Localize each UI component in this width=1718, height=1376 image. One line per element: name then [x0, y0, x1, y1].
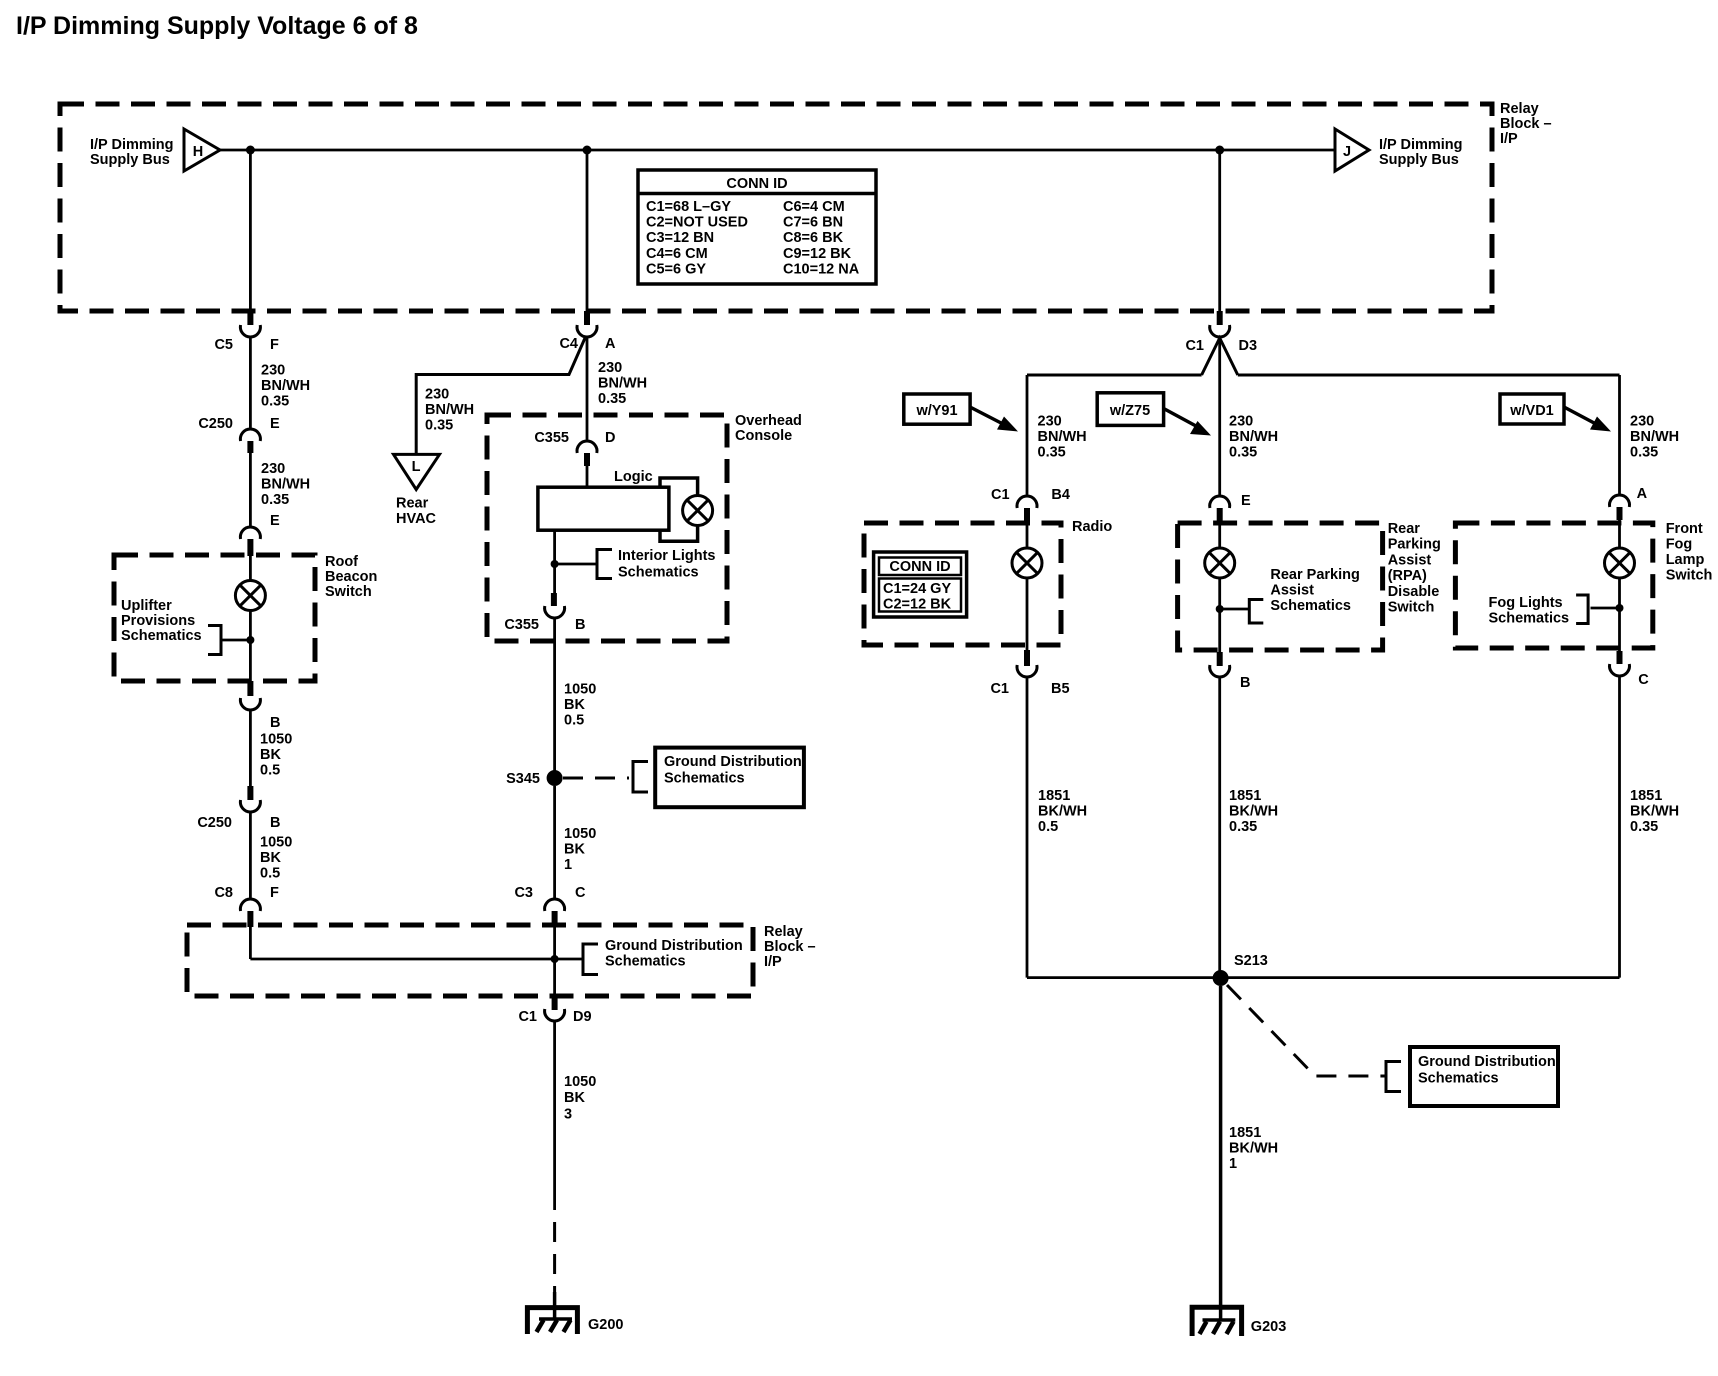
svg-text:I/P: I/P [1500, 131, 1518, 147]
svg-text:C5=6 GY: C5=6 GY [646, 261, 706, 277]
wire B to C250 B [249, 710, 252, 786]
svg-text:B: B [575, 617, 585, 633]
svg-text:1851: 1851 [1229, 1125, 1261, 1141]
svg-text:Uplifter: Uplifter [121, 598, 172, 614]
svg-text:C3=12 BN: C3=12 BN [646, 230, 714, 246]
CONN ID table (radio) [874, 552, 967, 617]
ground distribution schematics box (S213) [1410, 1047, 1558, 1106]
svg-text:J: J [1343, 144, 1351, 160]
svg-text:Rear Parking: Rear Parking [1270, 567, 1359, 583]
ground G200 [527, 1308, 623, 1334]
bracket rear parking assist [1220, 600, 1264, 624]
svg-text:Front: Front [1666, 521, 1703, 537]
svg-text:BK: BK [564, 842, 585, 858]
connector C1 D3 [1185, 311, 1257, 354]
svg-text:C2=12 BK: C2=12 BK [883, 597, 952, 613]
wire label 1050 BK 0.5 (below roof beacon) [260, 732, 292, 779]
svg-text:Schematics: Schematics [618, 565, 699, 581]
label I/P Dimming Supply Bus (left) [90, 137, 174, 168]
svg-text:w/Z75: w/Z75 [1109, 403, 1150, 419]
svg-text:E: E [270, 513, 280, 529]
label Interior Lights Schematics [618, 548, 715, 581]
junction on bus at C5 drop [246, 146, 255, 155]
svg-text:CONN ID: CONN ID [726, 176, 787, 192]
wire down radio branch [1026, 375, 1029, 496]
svg-text:Assist: Assist [1270, 583, 1314, 599]
svg-text:BK/WH: BK/WH [1229, 804, 1278, 820]
wire label 1050 BK 0.5 (to C8) [260, 835, 292, 882]
connector C (fog) [1610, 651, 1650, 688]
svg-text:I/P Dimming: I/P Dimming [90, 137, 174, 153]
junction dot (roof beacon tap) [246, 636, 254, 644]
svg-text:A: A [1637, 486, 1648, 502]
wire C355 B down to S345 [553, 618, 556, 778]
svg-text:C355: C355 [534, 430, 569, 446]
svg-text:0.35: 0.35 [598, 391, 626, 407]
svg-text:S213: S213 [1234, 953, 1268, 969]
svg-text:Fog Lights: Fog Lights [1489, 595, 1563, 611]
wire into lamp (radio) [1026, 524, 1029, 548]
bus arrow H (I/P Dimming Supply Bus, left) [184, 129, 220, 171]
label Rear Parking Assist Schematics [1270, 567, 1359, 614]
svg-text:C1: C1 [991, 487, 1010, 503]
svg-text:Disable: Disable [1388, 584, 1440, 600]
svg-text:0.35: 0.35 [1630, 819, 1658, 835]
svg-text:BN/WH: BN/WH [1038, 429, 1087, 445]
wire C down to S213 rail [1618, 676, 1621, 978]
label Uplifter Provisions Schematics [121, 598, 202, 644]
svg-text:C4: C4 [559, 336, 578, 352]
svg-text:0.35: 0.35 [261, 394, 289, 410]
svg-text:1050: 1050 [564, 826, 596, 842]
bracket ground distribution (S213) [1386, 1062, 1401, 1092]
roof beacon switch dashed box [114, 555, 315, 681]
wire horizontal to radio branch [1027, 374, 1202, 377]
fog dashed box [1455, 523, 1652, 648]
connector C355 D [534, 430, 615, 466]
connector C8 F [214, 885, 279, 927]
label Fog Lights Schematics [1489, 595, 1570, 627]
wire label 1851 BK/WH 1 [1229, 1125, 1278, 1172]
svg-text:C8: C8 [214, 885, 233, 901]
wire S213 rail [1027, 976, 1620, 979]
svg-text:Supply Bus: Supply Bus [1379, 152, 1459, 168]
lamp (fog) [1605, 548, 1635, 578]
wire horizontal to fog branch [1238, 374, 1620, 377]
node S213 [1213, 953, 1268, 986]
svg-text:B: B [270, 815, 280, 831]
svg-text:1050: 1050 [564, 1074, 596, 1090]
svg-text:F: F [270, 885, 279, 901]
svg-text:C: C [575, 885, 586, 901]
wire C8 F into relay block down [249, 927, 252, 959]
svg-text:0.5: 0.5 [260, 763, 280, 779]
svg-text:Interior Lights: Interior Lights [618, 548, 715, 564]
svg-text:Console: Console [735, 428, 792, 444]
bracket ground distribution (S345) [633, 762, 648, 793]
wire C355 D to logic box [586, 466, 589, 488]
svg-text:B5: B5 [1051, 681, 1070, 697]
connector A (fog) [1610, 486, 1648, 520]
svg-text:230: 230 [1630, 414, 1654, 430]
svg-text:Parking: Parking [1388, 537, 1441, 553]
svg-text:Schematics: Schematics [1270, 598, 1351, 614]
label Relay Block - I/P (top right) [1500, 101, 1552, 147]
svg-text:Beacon: Beacon [325, 569, 377, 585]
svg-text:S345: S345 [506, 771, 540, 787]
svg-text:230: 230 [261, 363, 285, 379]
svg-text:BK/WH: BK/WH [1038, 804, 1087, 820]
svg-text:230: 230 [1038, 414, 1062, 430]
wire label 230 BN/WH 0.35 (fog branch) [1630, 414, 1679, 461]
label Ground Distribution Schematics (relay block) [605, 938, 743, 970]
overhead console dashed box [487, 415, 727, 641]
svg-text:C1=24 GY: C1=24 GY [883, 581, 951, 597]
svg-text:L: L [412, 459, 421, 475]
svg-text:Ground Distribution: Ground Distribution [664, 754, 802, 770]
wire C4 diagonal to rear HVAC branch [416, 338, 585, 454]
wire lamp to box bottom (roof beacon) [249, 611, 252, 682]
svg-text:Block –: Block – [1500, 116, 1552, 132]
svg-text:Rear: Rear [1388, 521, 1421, 537]
svg-text:BK: BK [564, 1090, 585, 1106]
svg-text:C8=6 BK: C8=6 BK [783, 230, 844, 246]
svg-text:D: D [605, 430, 615, 446]
svg-text:BK/WH: BK/WH [1229, 1141, 1278, 1157]
wire C250 B to C8 F [249, 812, 252, 899]
svg-text:1: 1 [564, 857, 572, 873]
svg-text:C1: C1 [990, 681, 1009, 697]
connector C355 B [504, 593, 585, 633]
wire label 230 BN/WH 0.35 (to roof beacon) [261, 461, 310, 508]
svg-text:Overhead: Overhead [735, 413, 802, 429]
label Overhead Console [735, 413, 802, 444]
svg-text:Switch: Switch [1666, 568, 1713, 584]
svg-text:Relay: Relay [764, 924, 803, 940]
svg-text:1851: 1851 [1229, 788, 1261, 804]
wire label 1050 BK 0.5 (below overhead console) [564, 682, 596, 729]
connector C5 F [214, 311, 279, 353]
svg-text:C9=12 BK: C9=12 BK [783, 246, 852, 262]
svg-text:C3: C3 [514, 885, 533, 901]
svg-text:E: E [1241, 493, 1251, 509]
svg-text:230: 230 [598, 360, 622, 376]
wire C4 down to C355 D [586, 337, 589, 441]
lamp (rpa) [1205, 548, 1235, 578]
label I/P Dimming Supply Bus (right) [1379, 137, 1463, 168]
svg-text:BK: BK [260, 850, 281, 866]
svg-text:0.35: 0.35 [425, 418, 453, 434]
flag box w/Y91 [904, 394, 970, 424]
wire B5 down to S213 rail [1026, 677, 1029, 978]
wire logic box down [553, 530, 556, 593]
svg-text:Schematics: Schematics [664, 771, 745, 787]
bracket ground distribution (relay block) [555, 944, 598, 975]
ground distribution schematics box (S345) [655, 748, 804, 808]
wire relay block horizontal [250, 958, 554, 961]
svg-text:B: B [1240, 675, 1250, 691]
svg-text:BK/WH: BK/WH [1630, 804, 1679, 820]
lamp (radio) [1012, 548, 1042, 578]
wire bus down to C5 [249, 150, 252, 311]
svg-text:1050: 1050 [564, 682, 596, 698]
svg-text:C5: C5 [214, 337, 233, 353]
svg-text:C1=68 L–GY: C1=68 L–GY [646, 199, 731, 215]
logic box (overhead console) [538, 487, 669, 530]
svg-text:F: F [270, 337, 279, 353]
label Rear Parking Assist RPA Disable Switch [1388, 521, 1441, 616]
flag box w/Z75 [1097, 393, 1163, 426]
wire logic box loop to lamp [660, 478, 698, 541]
svg-text:BN/WH: BN/WH [261, 477, 310, 493]
svg-text:Switch: Switch [325, 584, 372, 600]
svg-text:1851: 1851 [1630, 788, 1662, 804]
title text [16, 12, 418, 40]
label Roof Beacon Switch [325, 554, 377, 600]
bracket to uplifter provisions [208, 626, 250, 655]
ground G203 [1192, 1307, 1286, 1336]
wire into lamp (roof beacon) [249, 556, 252, 581]
svg-text:C6=4 CM: C6=4 CM [783, 199, 845, 215]
wire split diagonals below C1 D3 [1202, 338, 1238, 375]
wire down fog branch [1618, 375, 1621, 495]
svg-text:C2=NOT USED: C2=NOT USED [646, 215, 748, 231]
svg-text:Assist: Assist [1388, 552, 1432, 568]
svg-text:BN/WH: BN/WH [1630, 429, 1679, 445]
svg-text:3: 3 [564, 1106, 572, 1122]
relay block I/P dashed box (bottom) [187, 925, 753, 996]
wire bus H to J [220, 149, 1335, 152]
svg-text:Relay: Relay [1500, 101, 1539, 117]
svg-text:Roof: Roof [325, 554, 358, 570]
connector E (roof beacon switch) [240, 513, 280, 556]
radio dashed box [864, 523, 1061, 645]
svg-text:Supply Bus: Supply Bus [90, 152, 170, 168]
svg-text:0.35: 0.35 [1229, 819, 1257, 835]
svg-text:0.35: 0.35 [1229, 445, 1257, 461]
wire label 230 BN/WH 0.35 (rear HVAC) [425, 387, 474, 434]
svg-text:I/P Dimming Supply Voltage 6 o: I/P Dimming Supply Voltage 6 of 8 [16, 12, 418, 40]
junction dot (relay block) [551, 955, 559, 963]
wire label 1050 BK 3 [564, 1074, 596, 1122]
label Relay Block - I/P (bottom) [764, 924, 816, 970]
junction dot (fog tap) [1616, 604, 1624, 612]
wire S345 to C3 [553, 786, 556, 899]
flag box w/VD1 [1500, 394, 1564, 424]
wire into lamp (fog) [1618, 520, 1621, 548]
svg-text:C7=6 BN: C7=6 BN [783, 215, 843, 231]
wire label 230 BN/WH 0.35 (rpa branch) [1229, 414, 1278, 461]
svg-text:230: 230 [1229, 414, 1253, 430]
connector C1 B4 [991, 487, 1070, 524]
label Radio [1072, 519, 1112, 535]
svg-text:C250: C250 [197, 815, 232, 831]
wire C5 to C250 [249, 337, 252, 429]
bracket fog lights [1576, 595, 1619, 624]
svg-text:0.5: 0.5 [260, 866, 280, 882]
svg-text:w/Y91: w/Y91 [915, 403, 957, 419]
svg-text:D9: D9 [573, 1009, 592, 1025]
wire C250 E down to roof beacon switch [249, 453, 252, 527]
svg-text:CONN ID: CONN ID [889, 559, 950, 575]
wire lamp to B5 (radio) [1026, 578, 1029, 650]
wire label 230 BN/WH 0.35 (left drop) [261, 363, 310, 410]
svg-text:1050: 1050 [260, 835, 292, 851]
arrow w/Z75 to wire [1164, 409, 1211, 436]
svg-text:I/P: I/P [764, 954, 782, 970]
junction on bus at C4 drop [583, 146, 592, 155]
svg-text:BN/WH: BN/WH [598, 376, 647, 392]
svg-text:C1: C1 [518, 1009, 537, 1025]
svg-text:I/P Dimming: I/P Dimming [1379, 137, 1463, 153]
svg-text:C355: C355 [504, 617, 539, 633]
junction dot (interior lights tap) [551, 560, 559, 568]
svg-text:0.5: 0.5 [1038, 819, 1058, 835]
svg-text:Logic: Logic [614, 469, 653, 485]
svg-text:H: H [193, 144, 203, 160]
svg-text:Provisions: Provisions [121, 613, 195, 629]
node S345 [506, 770, 562, 787]
lamp (overhead console logic) [683, 496, 713, 526]
connector E (rpa) [1210, 493, 1251, 523]
svg-text:C4=6 CM: C4=6 CM [646, 246, 708, 262]
svg-text:BN/WH: BN/WH [261, 378, 310, 394]
svg-text:Lamp: Lamp [1666, 552, 1705, 568]
svg-text:A: A [605, 336, 616, 352]
connector B (rpa) [1210, 652, 1251, 691]
junction on bus at C1 drop [1215, 146, 1224, 155]
arrow w/VD1 to wire [1564, 407, 1611, 432]
svg-text:Block –: Block – [764, 939, 816, 955]
connector B (roof beacon bottom) [240, 681, 280, 731]
svg-text:Schematics: Schematics [1418, 1071, 1499, 1087]
svg-text:C1: C1 [1185, 338, 1204, 354]
svg-text:Schematics: Schematics [121, 628, 202, 644]
svg-text:230: 230 [261, 461, 285, 477]
connector C1 B5 [990, 650, 1069, 697]
svg-text:1851: 1851 [1038, 788, 1070, 804]
wire down rpa branch [1218, 338, 1221, 496]
wire S213 to G203 [1219, 986, 1223, 1320]
wire label 1851 BK/WH 0.5 [1038, 788, 1087, 835]
svg-text:0.5: 0.5 [564, 713, 584, 729]
connector C1 D9 [518, 996, 591, 1025]
svg-text:C250: C250 [198, 416, 233, 432]
svg-text:0.35: 0.35 [261, 492, 289, 508]
wire bus down to C1 D3 [1218, 150, 1221, 311]
svg-text:0.35: 0.35 [1038, 445, 1066, 461]
svg-text:Fog: Fog [1666, 537, 1693, 553]
connector C4 A [559, 311, 616, 352]
svg-text:C: C [1638, 672, 1649, 688]
rpa dashed box [1178, 523, 1383, 650]
svg-text:1: 1 [1229, 1156, 1237, 1172]
arrow L to Rear HVAC [394, 454, 440, 489]
svg-text:(RPA): (RPA) [1388, 568, 1427, 584]
wire bus down to C4 [586, 150, 589, 311]
wire lamp down (fog) [1618, 578, 1621, 651]
svg-text:BK: BK [260, 747, 281, 763]
svg-text:1050: 1050 [260, 732, 292, 748]
bracket interior lights [555, 550, 612, 579]
svg-text:Ground Distribution: Ground Distribution [605, 938, 743, 954]
svg-text:Schematics: Schematics [1489, 611, 1570, 627]
wire label 230 BN/WH 0.35 (radio branch) [1038, 414, 1087, 461]
label Front Fog Lamp Switch [1666, 521, 1713, 584]
label Logic [614, 469, 653, 485]
svg-text:E: E [270, 416, 280, 432]
svg-text:Rear: Rear [396, 496, 429, 512]
arrow w/Y91 to wire [970, 407, 1018, 432]
relay block I/P dashed box (top) [60, 104, 1492, 311]
svg-text:G203: G203 [1251, 1319, 1286, 1335]
wire lamp down (rpa) [1218, 578, 1221, 652]
wire label 1851 BK/WH 0.35 (fog) [1630, 788, 1679, 835]
svg-text:B: B [270, 715, 280, 731]
wire B down to S213 [1218, 677, 1221, 978]
svg-text:230: 230 [425, 387, 449, 403]
svg-text:BN/WH: BN/WH [425, 402, 474, 418]
svg-text:Switch: Switch [1388, 600, 1435, 616]
CONN ID table (relay block) [638, 170, 876, 284]
svg-text:Schematics: Schematics [605, 954, 686, 970]
svg-text:0.35: 0.35 [1630, 445, 1658, 461]
dashed link S345 to ground distribution [563, 777, 629, 780]
dashed wire to G200 [553, 1222, 556, 1319]
wire label 230 BN/WH 0.35 (C4 A) [598, 360, 647, 407]
svg-text:C10=12 NA: C10=12 NA [783, 261, 860, 277]
svg-text:Ground Distribution: Ground Distribution [1418, 1054, 1556, 1070]
label Rear HVAC [396, 496, 437, 528]
svg-text:Radio: Radio [1072, 519, 1112, 535]
svg-text:BN/WH: BN/WH [1229, 429, 1278, 445]
junction dot (rpa tap) [1216, 605, 1224, 613]
svg-text:w/VD1: w/VD1 [1509, 403, 1554, 419]
wire C1 D9 down [553, 1021, 556, 1210]
connector C250 B [197, 786, 280, 831]
svg-text:HVAC: HVAC [396, 511, 437, 527]
connector C250 E [198, 416, 280, 453]
svg-text:B4: B4 [1051, 487, 1070, 503]
svg-text:D3: D3 [1239, 338, 1258, 354]
wire label 1851 BK/WH 0.35 (rpa) [1229, 788, 1278, 835]
wire C3 through relay block [553, 925, 556, 996]
svg-text:G200: G200 [588, 1317, 623, 1333]
wire label 1050 BK 1 [564, 826, 596, 873]
svg-text:BK: BK [564, 697, 585, 713]
bus arrow J (I/P Dimming Supply Bus, right) [1335, 129, 1369, 171]
wire into lamp (rpa) [1218, 523, 1221, 548]
dashed link S213 to ground distribution [1227, 985, 1386, 1076]
lamp (roof beacon switch) [235, 581, 265, 611]
connector C3 C [514, 885, 586, 925]
